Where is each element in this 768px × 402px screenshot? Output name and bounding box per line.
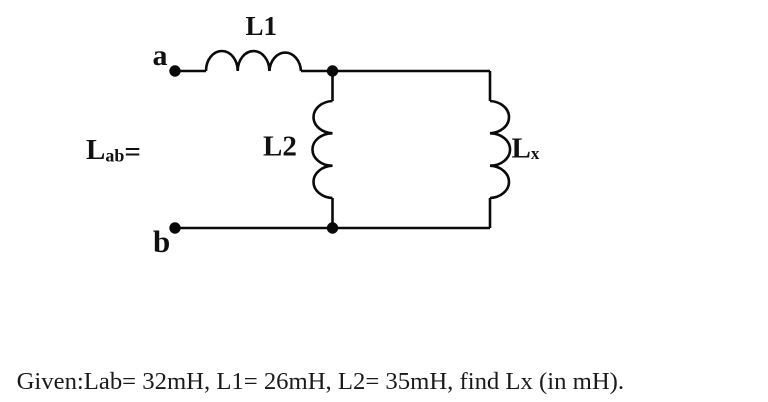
- svg-text:Given:Lab= 32mH, L1= 26mH, L2=: Given:Lab= 32mH, L1= 26mH, L2= 35mH, fin…: [17, 368, 624, 395]
- svg-text:Lab=: Lab=: [86, 134, 141, 168]
- svg-text:L2: L2: [263, 131, 297, 163]
- svg-text:b: b: [153, 224, 170, 259]
- svg-text:a: a: [153, 39, 168, 72]
- svg-text:Lx: Lx: [512, 132, 540, 164]
- svg-text:L1: L1: [246, 11, 278, 41]
